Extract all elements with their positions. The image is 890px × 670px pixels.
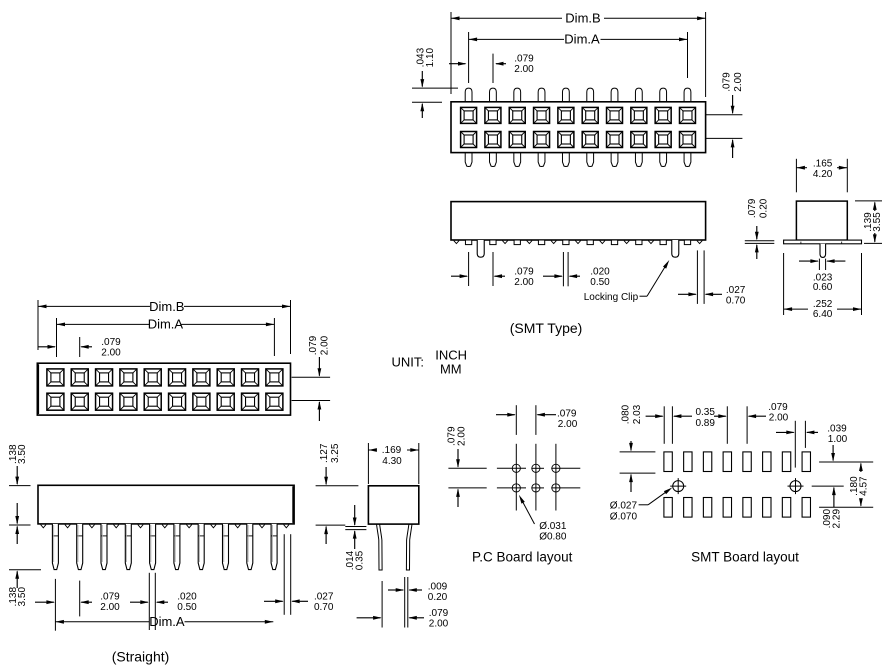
svg-text:(SMT Type): (SMT Type) [510,320,583,336]
svg-text:.027: .027 [726,285,746,296]
svg-text:.080: .080 [620,404,631,424]
svg-text:0.70: 0.70 [314,602,334,613]
svg-text:Ø0.80: Ø0.80 [539,531,567,542]
svg-text:2.00: 2.00 [320,335,331,355]
svg-text:2.00: 2.00 [456,426,467,446]
svg-text:6.40: 6.40 [813,309,833,320]
svg-text:3.50: 3.50 [17,587,28,607]
svg-text:Dim.A: Dim.A [149,614,185,629]
svg-text:Dim.A: Dim.A [148,317,184,332]
svg-text:2.00: 2.00 [429,619,449,630]
svg-text:.079: .079 [514,54,534,65]
svg-text:.079: .079 [768,402,788,413]
svg-text:0.35: 0.35 [354,550,365,570]
svg-text:3.25: 3.25 [330,443,341,463]
svg-text:.079: .079 [557,409,577,420]
svg-text:.165: .165 [813,159,833,170]
svg-text:P.C Board layout: P.C Board layout [472,549,573,564]
svg-text:0.60: 0.60 [813,282,833,293]
svg-text:Dim.B: Dim.B [565,11,600,26]
svg-text:.009: .009 [428,582,448,593]
svg-text:2.00: 2.00 [769,412,789,423]
svg-text:.079: .079 [101,337,121,348]
svg-text:4.20: 4.20 [813,169,833,180]
svg-text:Ø.070: Ø.070 [610,512,638,523]
svg-text:Dim.A: Dim.A [564,32,600,47]
svg-text:INCH: INCH [435,348,467,363]
svg-text:.079: .079 [100,592,120,603]
svg-text:0.50: 0.50 [177,602,197,613]
svg-text:.020: .020 [590,267,610,278]
svg-text:2.00: 2.00 [514,64,534,75]
svg-text:4.57: 4.57 [859,476,870,496]
svg-text:.020: .020 [177,592,197,603]
svg-text:Dim.B: Dim.B [149,299,184,314]
svg-text:0.20: 0.20 [759,198,770,218]
svg-text:Locking Clip: Locking Clip [584,292,639,303]
svg-text:SMT Board layout: SMT Board layout [691,549,799,564]
svg-text:0.89: 0.89 [695,418,715,429]
svg-text:UNIT:: UNIT: [392,354,425,369]
svg-text:.027: .027 [314,592,334,603]
svg-text:.169: .169 [382,445,402,456]
svg-text:(Straight): (Straight) [112,649,170,665]
svg-text:MM: MM [440,362,462,377]
svg-text:.079: .079 [429,608,449,619]
svg-text:2.03: 2.03 [632,404,643,424]
svg-text:1.10: 1.10 [425,47,436,67]
svg-text:0.35: 0.35 [695,407,715,418]
svg-text:0.70: 0.70 [726,296,746,307]
svg-text:3.55: 3.55 [872,212,883,232]
svg-text:3.50: 3.50 [17,444,28,464]
svg-text:.127: .127 [319,443,330,463]
svg-text:0.20: 0.20 [428,592,448,603]
svg-text:.079: .079 [747,198,758,218]
svg-text:1.00: 1.00 [828,434,848,445]
svg-text:Ø.027: Ø.027 [610,501,638,512]
svg-text:0.50: 0.50 [590,277,610,288]
svg-text:2.00: 2.00 [100,602,120,613]
svg-text:.079: .079 [514,267,534,278]
svg-text:4.30: 4.30 [382,456,402,467]
svg-text:2.00: 2.00 [733,72,744,92]
svg-text:.079: .079 [722,72,733,92]
svg-text:2.00: 2.00 [514,277,534,288]
svg-text:2.00: 2.00 [558,419,578,430]
svg-text:2.29: 2.29 [831,509,842,529]
svg-text:2.00: 2.00 [101,348,121,359]
svg-text:.079: .079 [308,335,319,355]
